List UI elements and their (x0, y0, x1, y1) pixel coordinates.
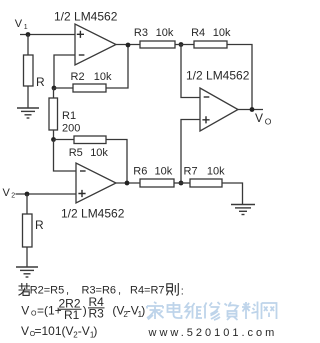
op-amp U2 (1/2 LM4562) (76, 163, 116, 203)
wire U1 output (116, 44, 140, 46)
label U3: 1/2 LM4562 (186, 69, 250, 83)
op-amp U3 (1/2 LM4562) (200, 88, 238, 131)
resistor R2 10k (71, 71, 113, 92)
svg-text:R3: R3 (89, 306, 105, 320)
ground (below V1 R) (17, 108, 39, 118)
node R3/R4 junction (179, 42, 184, 47)
svg-text:10k: 10k (207, 166, 225, 178)
note line 1: condition text (19, 283, 184, 298)
wire U1 - input to feedback node (54, 55, 75, 88)
wire U3 output Vo (238, 109, 263, 111)
ground (below V2 R) (16, 267, 38, 277)
node U2 output (125, 181, 130, 186)
watermark char 家 (147, 302, 164, 320)
watermark char 资 (225, 302, 239, 320)
wire node to R5 left (54, 139, 75, 141)
svg-text:1/2 LM4562: 1/2 LM4562 (186, 69, 250, 83)
resistor R (V1 input) (24, 55, 46, 89)
svg-text:1/2 LM4562: 1/2 LM4562 (61, 207, 125, 221)
svg-text:R: R (36, 75, 45, 89)
ground (right of R7) (231, 205, 255, 215)
watermark char 修 (204, 302, 220, 320)
node R1/R5 junction (51, 137, 56, 142)
node U1 output (126, 43, 131, 48)
wire R4 right to U3 output node (227, 45, 252, 110)
resistor R (V2 input) (23, 214, 45, 247)
svg-text:,: , (118, 285, 121, 297)
svg-text:2: 2 (11, 193, 15, 200)
svg-text::: : (181, 286, 184, 298)
node U3 output (250, 107, 255, 112)
svg-text:=101(V: =101(V (35, 324, 74, 338)
wire R to ground (27, 86, 29, 108)
svg-text:): ) (141, 304, 145, 318)
svg-text:R2=R5: R2=R5 (30, 285, 65, 297)
svg-text:10k: 10k (94, 71, 112, 83)
char: 若 (19, 283, 31, 295)
op-amp U1 (1/2 LM4562) (75, 24, 116, 65)
svg-text:V: V (3, 187, 11, 199)
node R6/R7 junction (179, 181, 184, 186)
resistor R7 10k (184, 166, 226, 188)
watermark char 维 (186, 303, 203, 319)
wire V2 node down to R (26, 194, 28, 214)
wire R to ground (26, 247, 28, 267)
svg-text:10k: 10k (90, 147, 108, 159)
resistor R4 10k (191, 27, 231, 48)
svg-text:www.520101.com: www.520101.com (148, 327, 278, 339)
wire V2 input to U2 + input (16, 193, 77, 195)
wire R7 right to ground (222, 183, 243, 205)
svg-text:R4=R7: R4=R7 (130, 285, 165, 297)
node V1 label (15, 18, 28, 31)
label U2: 1/2 LM4562 (61, 207, 125, 221)
wire R1 bottom to node (53, 130, 55, 140)
svg-text:): ) (83, 304, 87, 318)
svg-text:R1: R1 (62, 110, 76, 122)
resistor R3 10k (134, 27, 175, 48)
watermark URL www.520101.com (148, 327, 278, 339)
note line 3: numeric gain (21, 324, 97, 340)
resistor R6 10k (133, 166, 174, 188)
svg-text:R6: R6 (133, 166, 147, 178)
watermark char 电 (168, 302, 182, 318)
watermark: 家电维修资料网 www.520101.com (147, 302, 277, 321)
svg-text:,: , (66, 285, 69, 297)
node V2 label (3, 187, 16, 200)
wire R3/R4 node to U3 - input (181, 45, 200, 98)
svg-text:V: V (21, 324, 29, 338)
svg-text:10k: 10k (213, 27, 231, 39)
wire R6 to R7 (174, 182, 190, 184)
note line 2: gain formula (21, 295, 145, 322)
wire node to R2 left (54, 87, 73, 89)
svg-text:R3: R3 (134, 27, 148, 39)
svg-text:1: 1 (24, 24, 28, 31)
svg-text:-V: -V (78, 324, 90, 338)
svg-text:V: V (255, 111, 263, 125)
svg-text:R: R (35, 218, 44, 232)
wire R2 right to U1 output node (106, 45, 128, 88)
svg-text:R1: R1 (64, 308, 80, 322)
wire U2 output (116, 182, 140, 184)
watermark char 料 (242, 302, 259, 320)
svg-text:R5: R5 (69, 147, 83, 159)
svg-text:10k: 10k (155, 166, 173, 178)
node V1 junction (26, 32, 31, 37)
char: 则 (167, 283, 179, 295)
wire node to U2 - input (54, 140, 77, 172)
node V2 junction (25, 192, 30, 197)
svg-text:10k: 10k (156, 27, 174, 39)
svg-text:R7: R7 (184, 166, 198, 178)
node Vo label (255, 111, 272, 127)
wire R5 right to U2 output node (106, 140, 127, 184)
watermark char 网 (262, 303, 277, 319)
svg-text:R4: R4 (191, 27, 205, 39)
wire R6/R7 node to U3 + input (181, 120, 200, 184)
svg-text:V: V (21, 304, 29, 318)
svg-text:1/2 LM4562: 1/2 LM4562 (54, 10, 118, 24)
label U1: 1/2 LM4562 (54, 10, 118, 24)
node U1 feedback junction (52, 86, 57, 91)
wire V1 node down to R (27, 35, 29, 56)
wire V1 input to op-amp U1 + input (20, 34, 75, 36)
svg-text:200: 200 (62, 123, 80, 135)
wire node to R1 top (53, 88, 55, 98)
svg-text:): ) (93, 324, 97, 338)
svg-text:V: V (15, 18, 23, 30)
wire R3 to R4 (175, 44, 194, 46)
svg-text:O: O (265, 117, 272, 127)
resistor R1 200 (49, 98, 80, 135)
resistor R5 10k (69, 136, 109, 159)
svg-text:R2: R2 (71, 71, 85, 83)
